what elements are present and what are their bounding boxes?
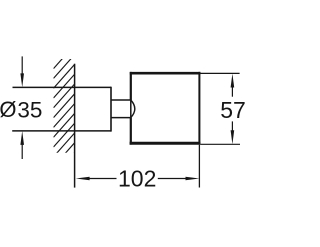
- cup left edge upper part: [130, 72, 132, 100]
- svg-text:57: 57: [220, 97, 246, 123]
- mount plate (rosette) top edge + Ø35 top extension line: [13, 86, 112, 88]
- 57 dimension line lower segment with down arrow: [231, 121, 233, 132]
- wall hatching: [54, 45, 75, 177]
- cup top edge: [130, 72, 201, 75]
- cup left edge lower part: [130, 118, 132, 145]
- mount plate bottom edge + Ø35 bottom extension line: [12, 130, 111, 132]
- Ø35 dimension line bottom arrow: [21, 144, 23, 159]
- 57 dimension line upper segment with up arrow: [231, 86, 233, 97]
- 102 right extension line: [198, 145, 200, 188]
- 57 bottom extension line: [200, 143, 240, 145]
- svg-text:Ø: Ø: [0, 97, 17, 122]
- Ø35 dimension line top arrow: [21, 56, 23, 75]
- stem bottom edge: [111, 117, 131, 119]
- stem rounded tip arc inside cup: [131, 100, 135, 118]
- cup right edge: [198, 72, 200, 144]
- svg-text:102: 102: [118, 165, 156, 191]
- cup left edge middle (behind holder): [130, 100, 132, 118]
- stem top edge: [111, 99, 131, 101]
- 57 top extension line: [200, 72, 239, 74]
- cup bottom edge: [130, 142, 201, 145]
- 102 dimension line right segment with right arrow: [158, 178, 188, 180]
- wall line (also left extension line of 102): [74, 64, 76, 188]
- svg-text:35: 35: [17, 98, 42, 123]
- mount plate right edge: [110, 87, 112, 132]
- 102 dimension line left segment with left arrow: [87, 178, 117, 180]
